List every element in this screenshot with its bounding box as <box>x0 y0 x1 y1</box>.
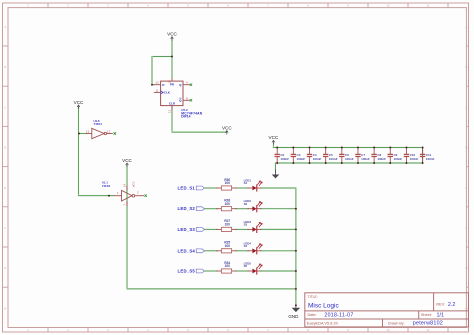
junction <box>422 147 424 149</box>
capacitor C7 100nF <box>355 148 370 164</box>
svg-text:VCC: VCC <box>122 158 132 163</box>
svg-text:100: 100 <box>225 181 231 185</box>
U5.2 pin 12 D <box>154 81 165 87</box>
wire <box>127 288 296 290</box>
inverter U1.6 74F04 <box>92 119 107 139</box>
svg-text:100: 100 <box>225 202 231 206</box>
svg-text:CLK: CLK <box>164 91 171 95</box>
title block <box>305 293 469 327</box>
wire <box>422 148 424 164</box>
junction <box>292 147 294 149</box>
wire <box>236 228 248 230</box>
wire <box>171 39 173 78</box>
U5.2 pin 8 Qbar <box>179 96 190 102</box>
junction <box>216 187 217 188</box>
svg-text:LED_S3: LED_S3 <box>178 227 196 232</box>
resistor R27 100 <box>217 219 237 231</box>
resistor R25 100 <box>217 241 237 253</box>
LED LED1 S1 <box>244 179 263 192</box>
svg-text:100nF: 100nF <box>345 157 354 161</box>
power flag VCC (U1.1 power) <box>122 158 132 167</box>
junction <box>389 162 391 164</box>
LED LED5 S5 <box>244 262 263 275</box>
svg-text:EasyEDA V5.8.20: EasyEDA V5.8.20 <box>307 320 339 325</box>
junction <box>292 162 294 164</box>
junction <box>357 147 359 149</box>
svg-text:LED_S2: LED_S2 <box>178 206 196 211</box>
svg-text:S4: S4 <box>244 244 248 248</box>
LED LED4 S4 <box>244 241 263 254</box>
svg-text:TITLE:: TITLE: <box>308 295 318 299</box>
junction <box>295 208 297 210</box>
resistor R26 100 <box>217 199 237 211</box>
junction <box>357 162 359 164</box>
wire <box>236 250 248 252</box>
wire <box>261 270 296 272</box>
junction <box>295 288 297 290</box>
wire <box>79 195 114 197</box>
svg-text:1/1: 1/1 <box>437 313 445 319</box>
capacitor C11 100nF <box>420 148 435 164</box>
svg-text:100nF: 100nF <box>297 157 306 161</box>
svg-text:Date:: Date: <box>308 313 317 317</box>
svg-text:Drawn By:: Drawn By: <box>388 321 405 325</box>
power flag VCC (capacitor rail) <box>269 135 279 144</box>
junction <box>276 162 278 164</box>
svg-text:74F04: 74F04 <box>102 184 111 188</box>
wire <box>79 133 86 135</box>
junction <box>325 147 327 149</box>
net flag LED_S4 <box>178 248 205 253</box>
no-connect flag U1.6 output <box>114 132 116 134</box>
wire <box>204 228 216 230</box>
capacitor C6 100nF <box>339 148 354 164</box>
wire <box>236 270 248 272</box>
net flag LED_S2 <box>178 206 205 211</box>
junction <box>151 84 153 86</box>
U5.2 pin 11 CLK <box>154 88 171 94</box>
resistor R30 100 <box>217 178 237 190</box>
svg-text:10: 10 <box>386 4 390 8</box>
capacitor C3 100nF <box>291 148 306 164</box>
svg-text:Sheet:: Sheet: <box>421 313 432 317</box>
capacitor C8 100nF <box>371 148 386 164</box>
wire <box>272 143 274 147</box>
junction <box>373 162 375 164</box>
wire <box>275 163 277 170</box>
U1.6 pin 12 output <box>107 129 113 133</box>
svg-text:100nF: 100nF <box>410 157 419 161</box>
junction <box>260 187 261 188</box>
svg-text:Misc Logic: Misc Logic <box>308 302 339 309</box>
junction <box>247 270 248 271</box>
junction <box>236 187 237 188</box>
U1.1 pin 14 VCC <box>123 181 136 190</box>
junction <box>247 250 248 251</box>
net flag LED_S3 <box>178 227 205 232</box>
flip-flop U5.2 MC74F74AN box <box>161 81 183 106</box>
junction <box>295 228 297 230</box>
svg-text:100nF: 100nF <box>361 157 370 161</box>
svg-text:100: 100 <box>225 264 231 268</box>
svg-text:F: F <box>466 226 468 230</box>
junction <box>295 304 297 306</box>
wire <box>261 187 296 189</box>
junction <box>247 187 248 188</box>
svg-text:S2: S2 <box>244 202 248 206</box>
junction <box>276 147 278 149</box>
svg-text:14: 14 <box>123 184 127 188</box>
svg-text:F: F <box>4 226 6 230</box>
junction <box>325 162 327 164</box>
U5.2 pin 13 CLR <box>168 102 176 114</box>
wire <box>261 250 296 252</box>
junction <box>171 56 173 58</box>
capacitor C10 100nF <box>404 148 419 164</box>
svg-text:peterw8102: peterw8102 <box>413 321 443 327</box>
wire <box>276 162 423 164</box>
svg-text:100nF: 100nF <box>393 157 402 161</box>
svg-text:100nF: 100nF <box>280 157 289 161</box>
LED LED3 S3 <box>244 220 263 233</box>
wire <box>273 147 422 149</box>
svg-text:H: H <box>4 306 6 310</box>
capacitor C9 100nF <box>388 148 403 164</box>
svg-text:LED_S5: LED_S5 <box>178 269 196 274</box>
U1.6 pin 13 input <box>86 129 92 133</box>
wire <box>295 188 297 305</box>
svg-text:CLR: CLR <box>169 102 176 106</box>
junction <box>247 229 248 230</box>
U1.1 pin 7 GND <box>123 201 127 206</box>
svg-text:13: 13 <box>86 129 90 133</box>
junction <box>247 208 248 209</box>
svg-text:VCC: VCC <box>74 100 84 105</box>
wire <box>172 131 227 133</box>
svg-text:11: 11 <box>426 328 429 332</box>
svg-text:E: E <box>4 186 6 190</box>
svg-text:100: 100 <box>225 244 231 248</box>
junction <box>216 208 217 209</box>
LED LED2 S2 <box>244 199 263 212</box>
junction <box>389 147 391 149</box>
capacitor C4 100nF <box>307 148 322 164</box>
wire <box>78 108 80 196</box>
inverter U1.1 74F04 <box>102 181 135 201</box>
svg-text:DIP14: DIP14 <box>181 115 190 119</box>
junction <box>216 250 217 251</box>
junction <box>108 195 110 197</box>
svg-text:100nF: 100nF <box>313 157 322 161</box>
no-connect flag U1.1 output <box>144 195 146 197</box>
svg-text:100: 100 <box>225 223 231 227</box>
svg-text:B: B <box>4 65 6 69</box>
svg-text:100nF: 100nF <box>426 157 435 161</box>
svg-text:LED_S4: LED_S4 <box>178 248 196 253</box>
junction <box>405 162 407 164</box>
svg-text:E: E <box>465 186 467 190</box>
ground GND (main) <box>288 305 300 319</box>
U1.1 pin 2 output <box>135 191 144 196</box>
svg-text:VCC: VCC <box>269 135 279 140</box>
junction <box>405 147 407 149</box>
svg-text:2018-11-07: 2018-11-07 <box>324 312 353 318</box>
svg-text:10: 10 <box>386 328 390 332</box>
wire <box>204 250 216 252</box>
junction <box>236 208 237 209</box>
svg-text:11: 11 <box>155 88 158 92</box>
svg-text:12: 12 <box>155 81 159 85</box>
svg-text:VCC: VCC <box>167 32 177 37</box>
wire <box>261 208 296 210</box>
svg-text:2.2: 2.2 <box>448 302 456 308</box>
U1.1 pin 1 input <box>114 191 122 196</box>
wire <box>126 166 128 289</box>
capacitor C2 100nF <box>275 148 290 164</box>
U5.2 pin 10 PR <box>168 77 175 86</box>
junction <box>236 270 237 271</box>
svg-text:VCC: VCC <box>222 126 232 131</box>
junction <box>373 147 375 149</box>
junction <box>78 133 80 135</box>
net flag LED_S1 <box>178 186 205 191</box>
svg-text:S5: S5 <box>244 264 248 268</box>
junction <box>341 162 343 164</box>
power flag VCC (top, U5.2) <box>167 32 177 41</box>
junction <box>309 147 311 149</box>
junction <box>216 270 217 271</box>
svg-text:B: B <box>465 65 467 69</box>
junction <box>236 250 237 251</box>
no-connect flag pin 8 <box>190 99 192 101</box>
svg-text:13: 13 <box>168 109 172 113</box>
junction <box>260 208 261 209</box>
svg-text:LED_S1: LED_S1 <box>178 186 196 191</box>
svg-text:74F04: 74F04 <box>93 122 102 126</box>
wire <box>236 187 248 189</box>
wire <box>152 84 154 86</box>
svg-text:H: H <box>465 306 467 310</box>
svg-text:100nF: 100nF <box>377 157 386 161</box>
power flag VCC (CLR pull-up) <box>222 126 232 135</box>
net flag LED_S5 <box>178 269 205 274</box>
svg-text:GND: GND <box>288 314 299 319</box>
ground (capacitor rail) <box>272 170 280 179</box>
no-connect flag pin 9 <box>190 84 192 86</box>
junction <box>422 162 424 164</box>
svg-text:A: A <box>4 25 6 29</box>
wire <box>152 56 172 58</box>
svg-text:S1: S1 <box>244 181 248 185</box>
U5.2 pin 9 Q <box>179 81 190 87</box>
resistor R24 100 <box>217 261 237 273</box>
wire <box>171 106 173 133</box>
svg-text:REV:: REV: <box>436 303 445 307</box>
junction <box>260 270 261 271</box>
wire <box>151 57 153 85</box>
junction <box>309 162 311 164</box>
junction <box>260 250 261 251</box>
svg-text:VCC: VCC <box>132 181 136 187</box>
junction <box>295 270 297 272</box>
svg-text:11: 11 <box>426 4 429 8</box>
wire <box>204 208 216 210</box>
junction <box>260 229 261 230</box>
junction <box>216 229 217 230</box>
svg-text:S3: S3 <box>244 223 248 227</box>
svg-text:12: 12 <box>107 129 111 133</box>
wire <box>236 208 248 210</box>
junction <box>236 229 237 230</box>
junction <box>341 147 343 149</box>
junction <box>295 250 297 252</box>
wire <box>261 228 296 230</box>
svg-text:100nF: 100nF <box>329 157 338 161</box>
wire <box>204 187 216 189</box>
U5.2 labels <box>181 108 202 118</box>
power flag VCC (left trunk) <box>74 100 84 109</box>
wire <box>204 270 216 272</box>
capacitor C5 100nF <box>323 148 338 164</box>
svg-text:A: A <box>465 25 467 29</box>
